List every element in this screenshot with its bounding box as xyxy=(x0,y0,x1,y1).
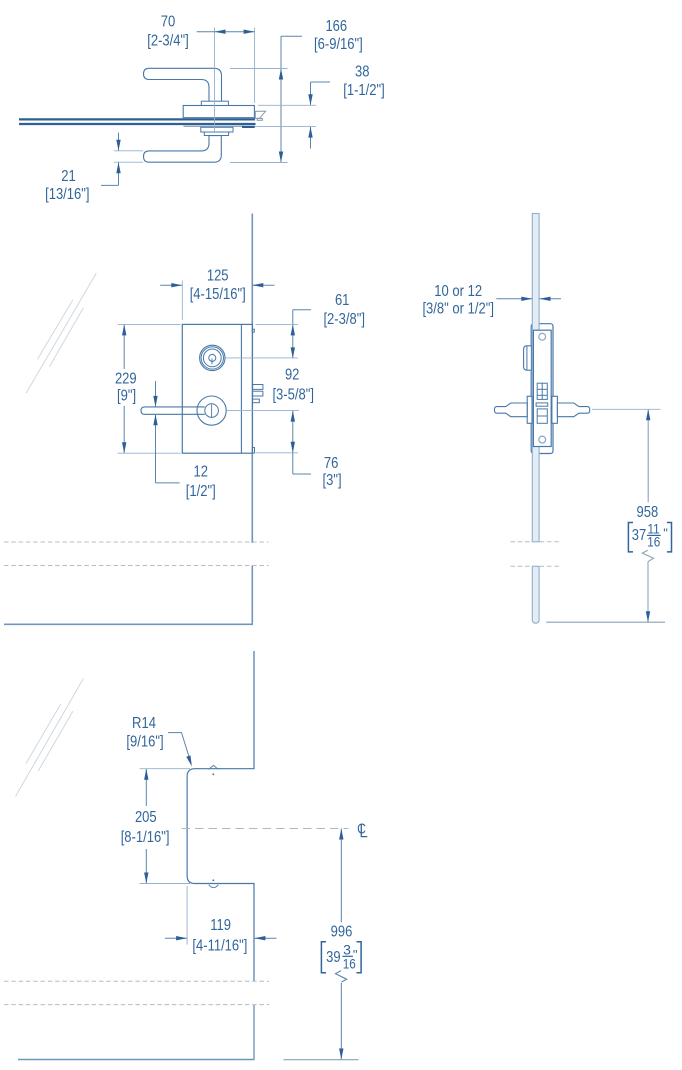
latch bolt foot xyxy=(257,118,262,120)
svg-text:[9"]: [9"] xyxy=(117,388,136,405)
svg-text:R14: R14 xyxy=(132,715,156,732)
svg-text:[3/8" or 1/2"]: [3/8" or 1/2"] xyxy=(422,301,494,318)
dimension 61 line xyxy=(292,310,294,359)
glass bottom edge xyxy=(18,1059,255,1061)
extension line: lever centreline xyxy=(592,408,661,410)
dimension 70 line xyxy=(197,31,255,33)
svg-text:229: 229 xyxy=(115,371,137,388)
svg-text:61: 61 xyxy=(335,292,350,309)
dimension text 996 xyxy=(331,924,353,941)
glass symbol hatch marks xyxy=(26,273,96,393)
svg-text:[3-5/8"]: [3-5/8"] xyxy=(272,387,314,404)
glass pane (edge, upper run) xyxy=(532,214,539,542)
lock case (front) xyxy=(182,324,252,453)
svg-text:[3"]: [3"] xyxy=(323,472,342,489)
lever handle (front) xyxy=(141,407,205,414)
door bottom edge xyxy=(4,623,253,625)
svg-text:125: 125 xyxy=(207,268,229,285)
svg-text:[13/16"]: [13/16"] xyxy=(45,186,89,203)
dimension text [37 11/16"] stacked fraction xyxy=(628,520,671,552)
dimension 21 line xyxy=(118,133,120,151)
latch bolt (front) upper piece xyxy=(253,385,263,390)
cylinder plug with keyway xyxy=(209,354,216,361)
centre mark on notch top edge xyxy=(209,765,219,769)
dimension 38 line xyxy=(310,82,312,105)
left rose (edge) xyxy=(527,396,532,423)
extension line: glass face xyxy=(254,28,256,104)
svg-text:[4-15/16"]: [4-15/16"] xyxy=(190,286,246,303)
svg-text:92: 92 xyxy=(285,366,300,383)
svg-text:37: 37 xyxy=(632,527,647,544)
break line (dashed) lower xyxy=(4,565,269,567)
svg-text:[1/2"]: [1/2"] xyxy=(186,483,216,500)
extension line: top of rose xyxy=(258,104,316,106)
extension line: notch bottom xyxy=(140,883,190,885)
faceplate screw top xyxy=(539,333,546,340)
dimension text 92 xyxy=(272,366,314,403)
dimension 10 or 12 lines xyxy=(496,298,532,300)
svg-text:38: 38 xyxy=(355,64,370,81)
latch bolt (edge) xyxy=(524,346,532,370)
svg-text:16: 16 xyxy=(647,534,660,550)
lever hub inner circle xyxy=(205,404,219,418)
extension line: hub centre xyxy=(227,410,300,412)
dimension 119 lines xyxy=(165,937,187,939)
svg-text:996: 996 xyxy=(331,924,353,941)
upper lever handle (plan) xyxy=(144,68,222,105)
dimension text 38 xyxy=(343,64,385,99)
extension line: bottom of lower lever xyxy=(114,161,143,163)
floor line xyxy=(546,621,665,623)
extension line: lock bottom right xyxy=(256,452,299,454)
svg-text:39: 39 xyxy=(326,949,341,966)
dimension 125 line and arrows xyxy=(160,284,182,286)
faceplate top tab xyxy=(252,329,254,332)
hub slot xyxy=(537,409,547,423)
dimension text 205 xyxy=(121,809,170,846)
glass edge with cutout notch xyxy=(187,651,254,981)
dimension 76: leader elbow xyxy=(292,453,294,474)
dimension 996 line upper xyxy=(340,829,342,923)
door edge (upper segment) xyxy=(251,214,253,544)
dimension 21 leader xyxy=(101,184,119,186)
svg-text:12: 12 xyxy=(194,464,209,481)
cylinder face xyxy=(203,349,221,367)
break zigzag on 958 line xyxy=(642,550,653,561)
extension line: glass underside xyxy=(255,126,316,128)
svg-text:[6-9/16"]: [6-9/16"] xyxy=(314,36,363,53)
dimension 229 line xyxy=(123,324,125,369)
lower lever handle (plan) xyxy=(144,136,222,163)
dimension 166: leader elbow xyxy=(281,35,302,37)
svg-text:": " xyxy=(663,526,668,541)
dimension text 61 xyxy=(323,292,365,328)
dimension text 10 or 12 xyxy=(422,283,494,317)
lever hub outer circle xyxy=(197,396,226,425)
latch slot grid xyxy=(537,383,547,399)
svg-text:21: 21 xyxy=(61,168,76,185)
extension line: lock top right xyxy=(256,323,299,325)
dimension text 70 xyxy=(147,13,189,49)
door edge (lower segment) xyxy=(251,566,253,624)
extension line: lever centreline xyxy=(214,28,216,134)
extension line: notch top xyxy=(140,768,190,770)
mortise lock case (edge) xyxy=(531,324,553,454)
extension line: top of lock xyxy=(118,323,181,325)
extension line: cylinder centre xyxy=(226,357,299,359)
break line (dashed) upper xyxy=(511,541,562,543)
lock case / faceplate boundary xyxy=(240,324,242,453)
dimension 205 line xyxy=(145,769,147,806)
faceplate bottom tab xyxy=(252,448,254,454)
upper rose collar step xyxy=(201,101,228,105)
dimension text 21 xyxy=(45,168,89,203)
dimension text 12 xyxy=(186,464,216,500)
thick plate edge under glass end xyxy=(242,126,255,128)
svg-text:10 or 12: 10 or 12 xyxy=(434,283,482,300)
dimension 76 line xyxy=(292,411,294,453)
leader R14 xyxy=(168,733,191,763)
centreline symbol CL xyxy=(357,822,367,838)
svg-text:[4-11/16"]: [4-11/16"] xyxy=(192,938,247,955)
latch bolt (front) lower piece xyxy=(253,391,263,396)
hub centre tick xyxy=(211,405,213,418)
auxiliary slot xyxy=(536,403,548,406)
centreline (dashed) xyxy=(182,828,349,830)
glass symbol hatch marks xyxy=(16,679,84,797)
cylinder outer ring xyxy=(200,345,225,370)
faceplate (edge) xyxy=(533,330,551,446)
dimension text [39 3/16"] stacked fraction xyxy=(321,942,361,973)
svg-text:[2-3/4"]: [2-3/4"] xyxy=(147,32,189,49)
dimension 166 line xyxy=(280,36,282,162)
mounting plate under glass xyxy=(184,125,245,127)
dimension text 166 xyxy=(314,18,363,53)
dimension 38: leader elbow xyxy=(311,81,331,83)
dimension 958 line upper xyxy=(647,409,649,502)
extension line: bottom of lower lever xyxy=(230,162,288,164)
dimension text R14 xyxy=(126,715,163,750)
dimension 996 line lower xyxy=(340,983,342,1060)
dimension 12 line xyxy=(155,381,157,407)
glass edge below break xyxy=(253,1005,255,1060)
break line (dashed) lower xyxy=(4,1004,269,1006)
svg-text:[2-3/8"]: [2-3/8"] xyxy=(323,311,365,328)
auxiliary bolt (front) xyxy=(253,399,260,403)
dimension text 229 xyxy=(115,371,137,405)
break line (dashed) upper xyxy=(4,980,269,982)
svg-text:[1-1/2"]: [1-1/2"] xyxy=(343,82,385,99)
glass door upper surface line (plan) xyxy=(19,118,255,120)
svg-text:76: 76 xyxy=(324,455,339,472)
dimension 61: leader elbow xyxy=(293,309,311,311)
extension line: notch left side xyxy=(186,886,188,945)
lower rose collar step xyxy=(204,132,228,136)
svg-text:205: 205 xyxy=(135,809,157,826)
extension line: top of lower lever xyxy=(114,150,143,152)
lower rose plate xyxy=(201,127,233,132)
dimension text 958 xyxy=(637,504,659,521)
left lever (edge) xyxy=(494,403,527,417)
extension line: top of upper lever xyxy=(230,68,288,70)
dimension text 76 xyxy=(323,455,342,489)
svg-text:166: 166 xyxy=(325,18,347,35)
svg-text:": " xyxy=(353,947,358,962)
floor line xyxy=(284,1059,359,1061)
svg-text:958: 958 xyxy=(637,504,659,521)
svg-text:[8-1/16"]: [8-1/16"] xyxy=(121,829,170,846)
dimension text 119 xyxy=(192,917,247,955)
upper rose plate xyxy=(183,106,254,118)
break line (dashed) upper xyxy=(4,541,269,543)
extension line: bottom of lock xyxy=(118,452,181,454)
right lever (edge) xyxy=(557,403,589,417)
centre mark on notch bottom edge xyxy=(209,885,219,888)
glass pane (edge, lower run with rounded bottom) xyxy=(532,566,539,623)
latch bolt (plan, beveled face) xyxy=(255,111,265,118)
break zigzag on 996 line xyxy=(336,971,347,982)
svg-text:119: 119 xyxy=(210,917,231,934)
extension line: left side of lock xyxy=(181,281,183,321)
glass door lower surface line (plan) xyxy=(19,123,256,125)
right rose (edge) xyxy=(552,396,558,423)
faceplate screw bottom xyxy=(539,436,546,443)
dimension 12 leader xyxy=(156,482,180,484)
dimension text 125 xyxy=(190,268,246,303)
svg-text:70: 70 xyxy=(161,13,176,30)
dimension 958 line lower xyxy=(647,562,649,623)
break line (dashed) lower xyxy=(511,565,562,567)
svg-text:[9/16"]: [9/16"] xyxy=(126,733,163,750)
